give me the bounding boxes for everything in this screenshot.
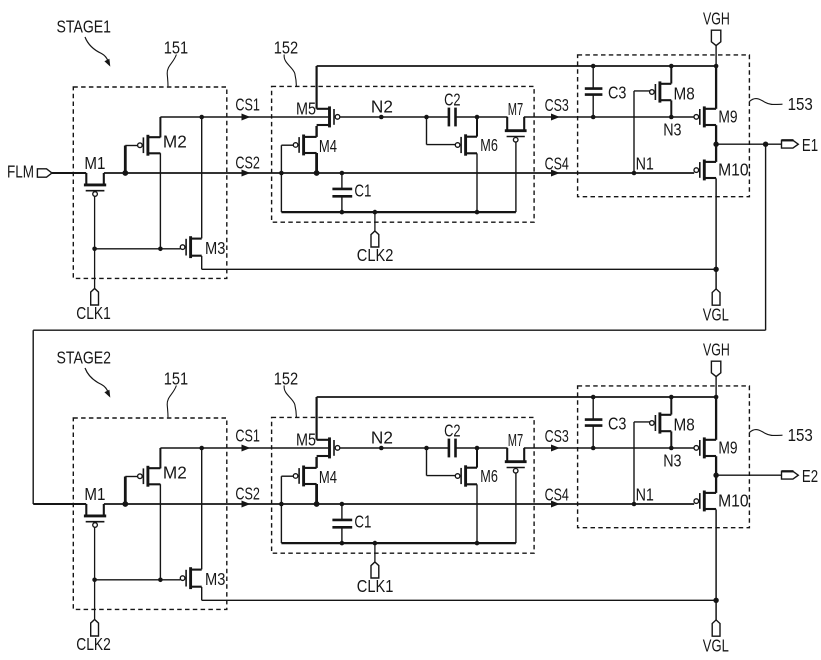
junction bottom rail / VGL column (713, 598, 718, 603)
junction M2 source / M3 gate row (158, 578, 163, 583)
wire M7 gate down to 152 bottom rail (515, 142, 517, 212)
port VGL (712, 289, 720, 305)
junction M8 source / VGH rail (669, 395, 674, 400)
wire carry input to M1 source (33, 503, 86, 505)
junction M8 drain / CS3 row (node N3) (669, 115, 674, 120)
svg-text:M6: M6 (480, 135, 498, 155)
port CLK1 (371, 562, 379, 578)
svg-text:C2: C2 (444, 421, 460, 441)
junction M1 gate / M3 gate row (92, 247, 97, 252)
svg-text:C2: C2 (444, 90, 460, 110)
svg-text:CS1: CS1 (235, 426, 260, 446)
wire M9 drain down to output node (715, 456, 717, 475)
wire CLK2 stub (374, 212, 376, 231)
wire M8 gate down to N1 row (633, 91, 635, 173)
junction M1 gate / M3 gate row (92, 578, 97, 583)
junction C1 bottom / rail (340, 210, 345, 215)
wire M2 gate drop to CS2 row (124, 146, 127, 174)
port CLK2 (371, 231, 379, 247)
junction C1 top / CS2 row (340, 502, 345, 507)
node N2 dot (379, 115, 384, 120)
wire M6 gate vertical (426, 448, 428, 476)
svg-text:152: 152 (274, 369, 298, 389)
transistor M3 (189, 236, 192, 258)
wire M3 source down to bottom rail (201, 587, 203, 600)
wire M4 gate horizontal (281, 475, 294, 477)
leader line for 152 (284, 386, 296, 418)
wire M10 source down to VGL port (715, 509, 717, 620)
wire M8 drain down to CS3 row (670, 100, 672, 117)
svg-text:M9: M9 (718, 106, 737, 126)
port VGH (711, 30, 720, 45)
transistor M8 (658, 81, 661, 102)
wire VGH port to rail (715, 376, 717, 397)
wire M1 gate to CLK port (94, 527, 96, 619)
transistor M6 (464, 465, 467, 486)
wire bottom rail to VGL column (202, 599, 716, 601)
junction C3 bottom / CS3 row (591, 446, 596, 451)
wire N2 row left segment (340, 447, 449, 449)
leader arrow from STAGE2 label to block 151 (85, 368, 108, 392)
arrowhead CS3 (551, 114, 560, 121)
wire M6 drain up to N2 row (476, 117, 478, 137)
wire C3 top lead (592, 66, 594, 88)
svg-text:M4: M4 (319, 136, 337, 156)
junction bottom rail / VGL column (713, 267, 718, 272)
capacitor C1 (332, 188, 352, 191)
wire M8 gate horizontal (634, 90, 650, 92)
svg-text:C3: C3 (608, 414, 626, 434)
junction CLK2 stub / rail (373, 210, 378, 215)
wire carry: horizontal return line (33, 329, 765, 331)
wire M6 source down to 152 bottom rail (476, 153, 478, 212)
junction carry branch on E1 row (763, 142, 768, 147)
transistor M8 (658, 412, 661, 433)
transistor M4 (302, 466, 305, 487)
wire C3 bottom lead (592, 95, 594, 117)
wire M4 gate drop to 152 bottom rail (280, 145, 282, 212)
transistor M2 (146, 466, 149, 487)
svg-text:M6: M6 (480, 466, 498, 486)
wire CLK1 stub (374, 543, 376, 562)
wire N2 row right segment (456, 447, 508, 449)
svg-text:C3: C3 (608, 83, 626, 103)
junction CLK1 stub / rail (373, 541, 378, 546)
svg-text:N2: N2 (371, 428, 393, 448)
wire M2 drain up to CS1 row (159, 448, 161, 468)
junction M2 gate / CS2 row (122, 170, 128, 176)
junction M2 source / M3 gate row (158, 247, 163, 252)
arrowhead CS4 (551, 170, 560, 177)
transistor M3 (189, 567, 192, 589)
STAGE2 dashed block 151 (input unit) (73, 418, 227, 609)
svg-text:CLK2: CLK2 (357, 245, 394, 265)
wire VGH top rail (317, 396, 716, 398)
wire M4 drain to M5 source (315, 457, 317, 468)
wire 152 bottom rail (281, 211, 516, 213)
junction M8 gate / N1 row (632, 502, 637, 507)
junction C2 right / M6 drain (475, 446, 480, 451)
junction M4 gate / CS2 row (279, 171, 284, 176)
svg-text:C1: C1 (354, 180, 371, 200)
svg-text:CLK1: CLK1 (76, 303, 111, 323)
STAGE1 dashed block 152 (control unit) (272, 86, 534, 222)
svg-text:CS4: CS4 (545, 153, 569, 173)
svg-text:M7: M7 (508, 99, 523, 119)
svg-text:153: 153 (788, 94, 813, 114)
wire M4 gate drop to 152 bottom rail (280, 476, 282, 543)
transistor M7 (505, 129, 527, 132)
junction M4 source / CS2 row (314, 170, 320, 176)
svg-text:N3: N3 (663, 450, 681, 470)
wire M7 gate down to 152 bottom rail (515, 473, 517, 543)
arrowhead CS2 (242, 170, 251, 177)
junction output node E1 (713, 142, 718, 147)
port E1 (782, 140, 799, 148)
wire M3 drain up to CS1 row (201, 448, 203, 569)
wire M3 gate row (95, 579, 181, 581)
svg-text:N1: N1 (636, 484, 654, 504)
arrowhead CS2 (242, 501, 251, 508)
svg-text:CLK2: CLK2 (76, 634, 111, 654)
wire M10 source down to VGL port (715, 178, 717, 289)
arrowhead CS4 (551, 501, 560, 508)
wire M2 source down to M3 gate row (159, 484, 161, 580)
svg-text:M8: M8 (674, 415, 695, 435)
junction C3 top / VGH rail (591, 64, 596, 69)
wire M5 top to VGH rail (316, 66, 318, 109)
svg-text:VGH: VGH (703, 339, 730, 359)
port VGL (712, 620, 720, 636)
wire C1 top lead (341, 504, 343, 519)
wire CS1 row (M2 drain to M5) (160, 447, 328, 449)
junction M8 gate / N1 row (632, 171, 637, 176)
svg-text:CS4: CS4 (545, 484, 569, 504)
svg-text:M3: M3 (205, 238, 225, 258)
svg-text:153: 153 (788, 425, 813, 445)
wire CS2/CS4 row (M1 drain to M10 gate) (104, 503, 694, 505)
svg-text:E2: E2 (802, 466, 818, 486)
wire M4 gate horizontal (281, 144, 294, 146)
wire bottom rail to VGL column (202, 268, 716, 270)
wire M3 source down to bottom rail (201, 256, 203, 269)
port VGH (711, 361, 720, 376)
wire M8 source up to VGH rail (670, 397, 672, 415)
junction VGH column / rail (714, 395, 719, 400)
wire CS3 row (M7 to M9 gate) (524, 116, 694, 118)
junction N2 / M6 gate branch (424, 446, 429, 451)
wire C1 bottom lead (341, 197, 343, 212)
svg-text:CS1: CS1 (235, 95, 260, 115)
wire output row to E1 port (716, 143, 781, 145)
wire M8 drain down to CS3 row (670, 431, 672, 448)
wire C1 top lead (341, 173, 343, 188)
junction M4 gate / CS2 row (279, 502, 284, 507)
svg-text:M10: M10 (718, 160, 749, 180)
svg-text:M2: M2 (163, 131, 187, 151)
wire M2 source down to M3 gate row (159, 153, 161, 249)
wire M4 drain to M5 source (315, 126, 317, 137)
wire M8 gate down to N1 row (633, 422, 635, 504)
wire M4 source drop to CS2 row (315, 484, 318, 504)
capacitor C1 (332, 519, 352, 522)
svg-text:VGH: VGH (703, 8, 730, 28)
svg-text:CS3: CS3 (545, 426, 569, 446)
node N2 dot (379, 446, 384, 451)
junction output node E2 (713, 473, 718, 478)
wire CS3 row (M7 to M9 gate) (524, 447, 694, 449)
STAGE2 dashed block 153 (output unit) (578, 386, 750, 528)
junction C3 bottom / CS3 row (591, 115, 596, 120)
input port FLM (37, 169, 52, 177)
wire M3 drain up to CS1 row (201, 117, 203, 238)
transistor M5 (328, 437, 331, 458)
svg-text:VGL: VGL (703, 304, 729, 324)
svg-text:N3: N3 (663, 119, 681, 139)
wire M3 gate row (95, 248, 181, 250)
transistor M9 (703, 106, 706, 127)
junction M6 source / rail (475, 210, 480, 215)
transistor M1 (84, 514, 106, 517)
svg-text:M5: M5 (296, 98, 316, 118)
wire C1 bottom lead (341, 528, 343, 543)
wire M2 drain up to CS1 row (159, 117, 161, 137)
svg-text:STAGE1: STAGE1 (57, 16, 112, 36)
junction N2 / M6 gate branch (424, 115, 429, 120)
transistor M2 (146, 135, 149, 156)
junction C1 bottom / rail (340, 541, 345, 546)
svg-text:VGL: VGL (703, 635, 729, 655)
wire M8 gate horizontal (634, 421, 650, 423)
wire carry: left side down to stage2 input (32, 330, 34, 504)
wire M6 gate horizontal (427, 144, 456, 146)
transistor M5 (328, 106, 331, 127)
arrowhead CS3 (551, 445, 560, 452)
wire VGH rail down to M9 source (715, 66, 717, 109)
wire carry: E1 node down right side (765, 144, 767, 330)
svg-text:M3: M3 (205, 569, 225, 589)
port CLK1 (91, 289, 99, 306)
wire M2 gate horizontal (125, 145, 138, 147)
junction M2 gate / CS2 row (122, 501, 128, 507)
wire M6 drain up to N2 row (476, 448, 478, 468)
wire VGH rail down to M9 source (715, 397, 717, 440)
svg-text:C1: C1 (354, 511, 371, 531)
transistor M1 (84, 183, 106, 186)
STAGE2 dashed block 152 (control unit) (272, 417, 534, 553)
svg-text:CS3: CS3 (545, 95, 569, 115)
svg-text:M2: M2 (163, 462, 187, 482)
wire M2 gate horizontal (125, 476, 138, 478)
svg-text:N1: N1 (636, 153, 654, 173)
leader line for 153 (749, 430, 782, 436)
wire output node down to M10 drain (715, 144, 717, 162)
arrowhead CS1 (242, 114, 251, 121)
wire M4 source drop to CS2 row (315, 153, 318, 173)
junction M8 source / VGH rail (669, 64, 674, 69)
capacitor C2 (448, 439, 451, 458)
svg-text:STAGE2: STAGE2 (57, 347, 112, 367)
junction M8 drain / CS3 row (node N3) (669, 446, 674, 451)
svg-text:CLK1: CLK1 (357, 576, 394, 596)
wire VGH port to rail (715, 45, 717, 66)
port E2 (782, 471, 799, 479)
capacitor C3 (585, 418, 603, 421)
leader line for 151 (167, 55, 176, 87)
capacitor C2 (448, 108, 451, 127)
wire 152 bottom rail (281, 542, 516, 544)
svg-text:M7: M7 (508, 430, 523, 450)
junction CS1 / M3 drain branch (199, 446, 204, 451)
transistor M6 (464, 134, 467, 155)
svg-text:M10: M10 (718, 491, 749, 511)
wire M1 gate to CLK port (94, 196, 96, 288)
junction C1 top / CS2 row (340, 171, 345, 176)
svg-text:M4: M4 (319, 467, 337, 487)
wire N2 row left segment (340, 116, 449, 118)
wire M2 gate drop to CS2 row (124, 477, 127, 505)
wire M8 source up to VGH rail (670, 66, 672, 84)
junction VGH column / rail (714, 64, 719, 69)
transistor M10 (703, 491, 706, 512)
junction M4 source / CS2 row (314, 501, 320, 507)
junction CS1 / M3 drain branch (199, 115, 204, 120)
wire FLM port to M1 source (52, 172, 86, 174)
wire M5 top to VGH rail (316, 397, 318, 440)
leader arrow from STAGE1 label to block 151 (85, 37, 108, 61)
wire M6 gate horizontal (427, 475, 456, 477)
transistor M4 (302, 135, 305, 156)
junction C3 top / VGH rail (591, 395, 596, 400)
transistor M10 (703, 160, 706, 181)
wire output row to E2 port (716, 474, 781, 476)
svg-text:M9: M9 (718, 437, 737, 457)
wire CS1 row (M2 drain to M5) (160, 116, 328, 118)
svg-text:FLM: FLM (7, 162, 34, 182)
svg-text:M5: M5 (296, 429, 316, 449)
STAGE1 dashed block 151 (input unit) (73, 87, 227, 278)
wire C3 top lead (592, 397, 594, 419)
leader line for 151 (167, 386, 176, 418)
wire VGH top rail (317, 65, 716, 67)
leader line for 152 (284, 55, 296, 87)
junction C2 right / M6 drain (475, 115, 480, 120)
capacitor C3 (585, 87, 603, 90)
STAGE1 dashed block 153 (output unit) (578, 55, 750, 197)
svg-text:M8: M8 (674, 84, 695, 104)
transistor M9 (703, 437, 706, 458)
svg-text:M1: M1 (84, 153, 105, 173)
wire M6 gate vertical (426, 117, 428, 145)
transistor M7 (505, 460, 527, 463)
svg-text:CS2: CS2 (235, 153, 260, 173)
svg-text:E1: E1 (802, 135, 818, 155)
svg-text:M1: M1 (84, 484, 105, 504)
svg-text:152: 152 (274, 38, 298, 58)
wire CS2/CS4 row (M1 drain to M10 gate) (104, 172, 694, 174)
wire M6 source down to 152 bottom rail (476, 484, 478, 543)
port CLK2 (91, 620, 99, 637)
wire M9 drain down to output node (715, 125, 717, 144)
junction M6 source / rail (475, 541, 480, 546)
wire N2 row right segment (456, 116, 508, 118)
wire output node down to M10 drain (715, 475, 717, 493)
svg-text:CS2: CS2 (235, 484, 260, 504)
wire C3 bottom lead (592, 426, 594, 448)
svg-text:N2: N2 (371, 97, 393, 117)
arrowhead CS1 (242, 445, 251, 452)
leader line for 153 (749, 99, 782, 105)
